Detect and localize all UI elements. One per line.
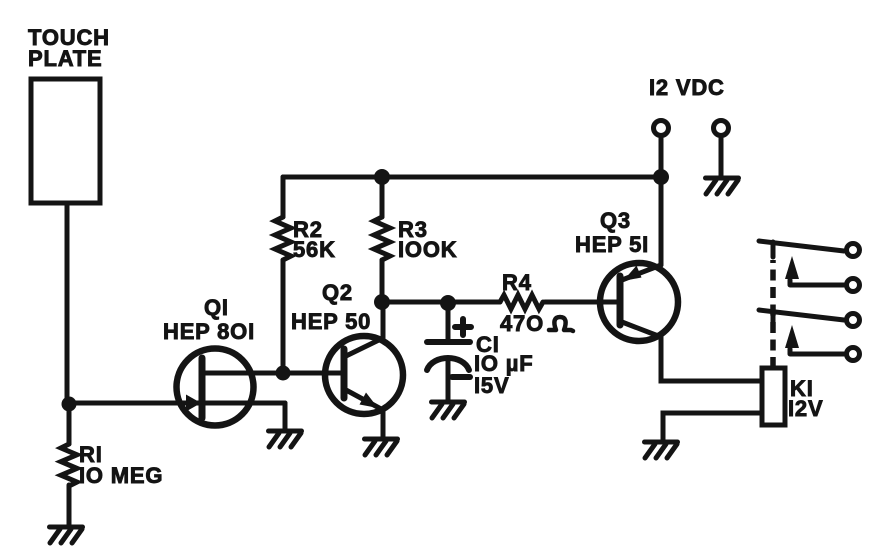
svg-text:I5V: I5V	[474, 373, 509, 398]
svg-text:PLATE: PLATE	[28, 46, 102, 71]
svg-text:Q2: Q2	[322, 280, 353, 305]
svg-text:Q3: Q3	[600, 208, 631, 233]
svg-text:HEP 5I: HEP 5I	[575, 232, 649, 257]
svg-text:IO MEG: IO MEG	[79, 463, 163, 488]
svg-text:QI: QI	[204, 295, 229, 320]
svg-text:47O: 47O	[500, 311, 544, 336]
svg-text:56K: 56K	[293, 237, 336, 262]
svg-text:HEP 8OI: HEP 8OI	[163, 319, 255, 344]
svg-text:HEP 50: HEP 50	[291, 309, 371, 334]
svg-text:R4: R4	[502, 270, 532, 295]
svg-text:I2 VDC: I2 VDC	[649, 75, 725, 100]
svg-text:IOOK: IOOK	[398, 237, 457, 262]
svg-text:I2V: I2V	[788, 396, 823, 421]
